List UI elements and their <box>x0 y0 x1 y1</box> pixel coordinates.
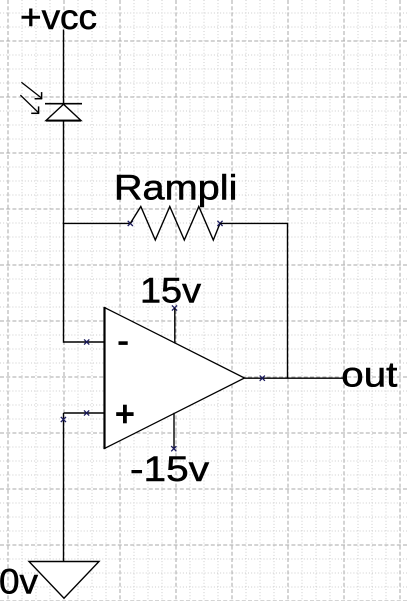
wire non-inverting input down to ground <box>63 413 65 562</box>
label 0v <box>0 563 39 601</box>
wire feedback vertical down to output <box>287 223 289 379</box>
svg-text:+vcc: +vcc <box>20 0 97 37</box>
wire junction to feedback resistor (horizontal) <box>63 222 131 224</box>
resistor Rampli zigzag <box>130 207 220 241</box>
label 15v <box>140 271 202 310</box>
svg-text:out: out <box>341 356 397 395</box>
wire output horizontal <box>245 377 345 379</box>
node non-inverting input pin <box>84 410 89 415</box>
wire inverting input horizontal <box>64 341 105 343</box>
node resistor right pin <box>217 221 222 226</box>
wire resistor to feedback corner <box>220 222 288 224</box>
wire -15v supply from op-amp bottom edge <box>173 413 175 449</box>
wire photodiode anode down to inverting-input corner <box>63 121 65 343</box>
node output pin <box>260 376 265 381</box>
svg-text:15v: 15v <box>140 271 202 310</box>
label out <box>341 356 397 395</box>
wire non-inverting input horizontal <box>64 412 105 414</box>
ground symbol 0v <box>29 562 99 599</box>
svg-text:Rampli: Rampli <box>114 168 237 207</box>
node ground wire pin <box>61 417 66 422</box>
node resistor left pin <box>128 221 133 226</box>
wire +15v supply down to op-amp top edge <box>174 308 176 344</box>
label Rampli <box>114 168 237 207</box>
node +15v supply pin <box>172 305 177 310</box>
wire +vcc to photodiode cathode <box>63 30 65 104</box>
svg-text:0v: 0v <box>0 563 39 601</box>
svg-text:-15v: -15v <box>130 450 210 489</box>
node inverting input pin <box>84 339 89 344</box>
power label +vcc <box>20 0 97 37</box>
photodiode D1 <box>20 82 82 120</box>
node -15v supply pin <box>171 446 176 451</box>
label -15v <box>130 450 210 489</box>
op-amp U1 <box>105 307 245 449</box>
